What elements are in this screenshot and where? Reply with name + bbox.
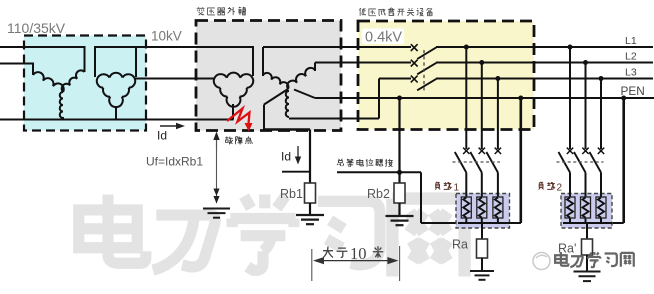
wire L3 from coil bottom	[289, 118, 379, 120]
ground Rb1	[296, 215, 324, 224]
breaker contact	[495, 148, 501, 154]
wire PEN drop to load1	[519, 98, 522, 223]
breaker blade	[470, 152, 482, 173]
node PEN-Rb2	[397, 96, 402, 101]
wire L2	[315, 62, 411, 64]
logo circle	[533, 253, 550, 270]
node L1-load2	[568, 45, 573, 50]
wire to Ra	[481, 223, 483, 239]
breaker QF1 pole 1	[411, 44, 418, 51]
node L3-load1	[495, 76, 500, 81]
wire neutral down to Rb1	[309, 130, 311, 184]
LV switchgear box	[358, 21, 534, 130]
label 0.4kV bg	[362, 29, 404, 45]
svg-text:10: 10	[350, 244, 367, 263]
fault point arrow	[216, 140, 218, 150]
breaker linkage load1	[453, 161, 501, 163]
resistor Ra	[477, 239, 488, 258]
node PEN-load1	[518, 96, 523, 101]
ground Rb2	[386, 216, 414, 225]
breaker blade	[455, 152, 467, 173]
load resistor element	[493, 197, 503, 218]
wire load feeder at x=570	[569, 47, 571, 149]
wire PEN tap down to Rb2	[398, 98, 400, 183]
node bonding-Rb2	[397, 170, 402, 175]
wire case bottom run to Rb1	[264, 128, 310, 130]
svg-text:L1: L1	[625, 35, 637, 47]
svg-text:L2: L2	[625, 51, 637, 63]
breaker contact	[463, 148, 469, 154]
node L2-load1	[479, 60, 484, 65]
resistor Rb2	[394, 183, 405, 203]
wire D1 bottom to line C	[115, 106, 117, 120]
wire load2 PE bus (inside)	[563, 222, 612, 224]
transformer T1 star winding W1	[33, 70, 85, 118]
label 变压器外箱	[197, 7, 205, 15]
Id arrow at Rb1	[297, 146, 299, 158]
svg-text:Id: Id	[157, 129, 167, 143]
wire drop to delta D1 top-left	[94, 46, 96, 77]
resistor Rb1	[305, 183, 316, 203]
label 总等电位联接	[337, 159, 344, 166]
load box 2	[561, 194, 612, 229]
wire bottom 10kV line C	[0, 119, 234, 121]
resistor Ra'	[582, 239, 593, 255]
label 大于10米	[323, 247, 333, 258]
label 低压成套开关设备	[359, 8, 366, 16]
svg-text:0.4kV: 0.4kV	[365, 30, 402, 46]
wire D2 bottom fault conductor	[232, 104, 234, 120]
dimension arrow	[318, 260, 394, 262]
bonding tick at Rb1	[282, 171, 311, 173]
wire load feeder at x=585.5	[585, 63, 587, 150]
breaker blade	[486, 152, 498, 173]
node L3-load2	[599, 76, 604, 81]
breaker QF1 pole 2	[411, 60, 418, 67]
breaker blade	[574, 152, 586, 173]
wire load feeder at x=601	[600, 79, 602, 150]
ground case earth	[203, 209, 230, 218]
wire load feeder at x=481.8	[481, 63, 483, 150]
svg-text:Uf=IdxRb1: Uf=IdxRb1	[146, 155, 203, 169]
transformer T2 delta winding D2	[214, 73, 253, 107]
breaker blade	[590, 152, 602, 173]
wire main equipotential bonding	[337, 171, 421, 173]
wire L1	[263, 46, 411, 48]
label 负载1	[435, 182, 440, 190]
transformer case box	[196, 21, 341, 131]
load box 1	[456, 194, 510, 229]
logo text 电力学习网	[555, 252, 568, 266]
load resistor element	[477, 197, 487, 218]
svg-text:Id: Id	[281, 150, 291, 164]
wire drop to winding W1 left arm	[32, 63, 34, 76]
wire to Ra2	[586, 223, 588, 239]
load resistor element	[596, 197, 606, 218]
svg-text:10kV: 10kV	[151, 29, 182, 44]
ground Ra'	[574, 272, 601, 282]
transformer T1 delta winding D1	[97, 73, 135, 107]
ground Ra	[470, 271, 494, 280]
wire W2 neutral diagonal to case	[264, 89, 288, 105]
wire 10kV line A right segment	[95, 46, 253, 48]
wire drop to delta D1 top-right	[135, 46, 137, 77]
wire load1 PE bus	[458, 222, 521, 224]
wire load2 PE bus	[566, 222, 624, 224]
breaker contact	[567, 148, 573, 154]
wire load feeder at x=466.3	[465, 47, 467, 149]
transformer T2 star winding W2	[263, 68, 315, 117]
Uf arrow line case to earth	[216, 134, 218, 203]
node L1-load1	[464, 45, 469, 50]
breaker contact	[479, 148, 485, 154]
svg-text:PEN: PEN	[621, 84, 645, 98]
wire middle 10kV feeder	[134, 78, 215, 80]
wire drop to delta D2 top-right	[252, 46, 254, 76]
wire 10kV line B stub	[0, 63, 33, 65]
svg-text:110/35kV: 110/35kV	[7, 20, 66, 36]
dimension ticks	[311, 249, 313, 281]
breaker contact	[582, 148, 588, 154]
watermark 电力学习网	[79, 194, 465, 276]
fault lightning bolt	[227, 109, 250, 125]
load resistor element	[461, 197, 471, 218]
svg-text:2: 2	[557, 183, 563, 194]
HV cabinet box 110/35kV	[24, 36, 146, 131]
breaker blade	[559, 152, 571, 173]
breaker contact	[598, 148, 604, 154]
svg-text:L3: L3	[625, 67, 637, 79]
wire load feeder at x=497.9	[497, 79, 499, 150]
breaker QF1 linkage	[423, 50, 425, 91]
svg-text:1: 1	[454, 183, 460, 194]
breaker QF1 pole 3	[411, 76, 418, 83]
wire W1 tail to line C	[62, 117, 64, 120]
node PEN-load2	[621, 96, 626, 101]
svg-text:Rb2: Rb2	[367, 187, 390, 201]
label 故障点	[225, 137, 233, 145]
label 负载2	[539, 182, 544, 190]
svg-text:Ra: Ra	[452, 238, 468, 252]
wire PEN drop to load2	[622, 98, 625, 223]
breaker linkage load2	[557, 161, 604, 163]
node L2-load2	[583, 60, 588, 65]
wire drop to winding W1 right arm	[84, 46, 86, 72]
wire PEN	[315, 97, 654, 99]
load resistor element	[581, 197, 591, 218]
wire 10kV line A left segment	[0, 46, 85, 48]
svg-text:Rb1: Rb1	[280, 187, 303, 201]
load resistor element	[565, 197, 575, 218]
Id arrow 10kV	[160, 125, 179, 127]
wire W2 arm1 riser	[262, 47, 264, 76]
wire W2 arm2 riser	[314, 63, 316, 72]
wire W2 PEN diagonal	[294, 90, 315, 99]
